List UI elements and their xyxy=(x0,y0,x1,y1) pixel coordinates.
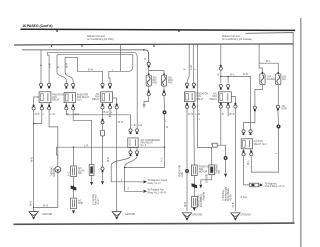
node junction xyxy=(73,147,74,148)
svg-text:FAN: FAN xyxy=(153,82,158,85)
wire xyxy=(20,29,295,30)
wire feeder B xyxy=(48,52,138,128)
svg-text:A–C: A–C xyxy=(68,171,71,176)
svg-text:FAN: FAN xyxy=(95,95,100,98)
svg-text:A–C: A–C xyxy=(161,157,164,162)
svg-text:L–W: L–W xyxy=(191,64,193,70)
svg-text:GAUGE: GAUGE xyxy=(267,78,276,81)
wire grommet to ground xyxy=(186,173,188,211)
svg-text:W–L: W–L xyxy=(230,75,235,77)
wire F2 to grommet xyxy=(163,96,166,111)
wire R1 pin to thermo switch xyxy=(49,110,58,167)
svg-text:FAN: FAN xyxy=(199,168,204,171)
svg-text:A/C: A/C xyxy=(78,200,82,203)
wire curve to arrow 2 xyxy=(125,156,143,191)
connector pins CR2 top xyxy=(242,130,245,135)
component inline resistor xyxy=(213,143,218,147)
wire CF1 tail xyxy=(255,85,263,106)
svg-text:A/C: A/C xyxy=(282,78,286,81)
svg-text:FAN: FAN xyxy=(52,96,57,99)
wire chain xyxy=(73,177,75,185)
node junction xyxy=(220,76,221,77)
wire chain xyxy=(193,189,195,197)
svg-text:RELAY: RELAY xyxy=(196,98,204,101)
wire CR1 pin2 chain xyxy=(193,108,196,165)
connector pins R3 top xyxy=(101,83,104,88)
svg-text:W–B: W–B xyxy=(185,202,187,207)
svg-text:L–W: L–W xyxy=(49,62,51,68)
fuse CF2 15A A/C xyxy=(276,72,281,85)
svg-text:W–L: W–L xyxy=(248,160,250,165)
svg-text:AMP: AMP xyxy=(78,202,83,205)
fuse CF1 7.5A GAUGE xyxy=(260,72,265,85)
relay R2 radiator fan relay No.2 xyxy=(64,92,75,102)
connector pins C-relay bottom xyxy=(129,151,132,156)
wire row horizontal xyxy=(57,147,165,160)
connector dark box xyxy=(89,165,94,176)
wire F1 tail xyxy=(144,96,149,108)
svg-text:<D–R>: <D–R> xyxy=(230,193,233,201)
connector pins R1 bottom xyxy=(32,105,35,110)
fuse F1 30A RDI FAN xyxy=(146,73,151,86)
relay CR2 magnetic clutch relay xyxy=(241,139,252,149)
svg-text:A/C: A/C xyxy=(143,104,147,107)
component fusible link xyxy=(250,183,259,187)
frame xyxy=(246,33,294,224)
svg-text:Radiator Fan and: Radiator Fan and xyxy=(87,35,105,38)
node junction xyxy=(33,207,34,208)
wire CR1 bottom stubs xyxy=(187,102,194,105)
connector bowtie xyxy=(192,183,198,189)
svg-text:FAN: FAN xyxy=(213,95,218,98)
svg-text:Clutch Relay <A–C>: Clutch Relay <A–C> xyxy=(265,185,286,188)
wire below F1 xyxy=(148,86,150,92)
wire CR1b bottom stubs xyxy=(221,102,228,104)
node tick xyxy=(178,30,180,33)
svg-text:To A/C: To A/C xyxy=(200,193,203,200)
svg-text:W–B: W–B xyxy=(188,114,193,116)
svg-text:RADIATOR: RADIATOR xyxy=(52,93,64,96)
svg-text:B–W: B–W xyxy=(243,74,249,76)
svg-text:B–W: B–W xyxy=(104,112,110,114)
wire below dark box xyxy=(91,175,93,181)
svg-text:W–B: W–B xyxy=(108,157,110,162)
svg-text:Amplifier: Amplifier xyxy=(202,191,205,200)
wire C-relay bottom stubs xyxy=(131,148,138,151)
wire R2 bottom pins xyxy=(66,103,73,107)
wire R2 pin2 to connector xyxy=(73,110,91,165)
wire bottom border xyxy=(14,223,295,224)
connector fuse feed xyxy=(147,62,150,65)
grommet xyxy=(277,125,281,129)
svg-text:L–W: L–W xyxy=(50,114,56,116)
node junction row xyxy=(164,147,165,148)
svg-text:DUAL: DUAL xyxy=(78,170,85,173)
wire pin stub xyxy=(227,108,229,116)
connector inline xyxy=(219,65,222,70)
arrow down xyxy=(102,173,104,181)
svg-text:B–W: B–W xyxy=(88,70,94,72)
arrow down xyxy=(72,210,75,213)
svg-text:W–L: W–L xyxy=(266,61,271,63)
wire bus drop pin2 xyxy=(227,76,229,83)
wire bus drop 2 xyxy=(192,45,195,83)
svg-text:L–R: L–R xyxy=(84,145,89,147)
fuse F2 30A CDS FAN xyxy=(161,73,166,86)
relay R3 cooling fan relay xyxy=(101,92,113,103)
node tick bus xyxy=(51,45,53,47)
svg-text:To Radiator Fan: To Radiator Fan xyxy=(148,189,165,192)
wire bus drop segB xyxy=(109,44,133,83)
svg-text:FAN: FAN xyxy=(181,172,184,177)
wire to grommet ground xyxy=(186,108,188,168)
noise filter xyxy=(100,130,104,136)
relay CR1b a/c fan relay xyxy=(218,92,231,103)
component engine coolant sensor xyxy=(209,165,215,175)
wire R1 bottom pins xyxy=(42,103,49,107)
connector pins CR1 bottom xyxy=(185,103,188,108)
svg-text:No. 2: No. 2 xyxy=(141,145,147,147)
wire to blob xyxy=(217,108,225,156)
svg-text:RELAY: RELAY xyxy=(210,98,218,101)
svg-text:W–B: W–B xyxy=(31,201,33,206)
wire to CR2 pin1 xyxy=(244,112,255,130)
connector CE1 xyxy=(191,165,197,176)
svg-text:A/C: A/C xyxy=(213,93,217,96)
connector E1 xyxy=(71,166,77,177)
wire branch to CR2 xyxy=(221,76,251,129)
svg-text:RELAY: RELAY xyxy=(52,99,60,102)
connector pins C-relay top xyxy=(129,129,132,134)
svg-text:A/C: A/C xyxy=(96,93,100,96)
wire CR2 pin1 to fuse link xyxy=(244,156,249,185)
svg-text:RADIATOR: RADIATOR xyxy=(77,93,89,96)
node junction xyxy=(33,123,34,124)
wire drop to R2 pin1 xyxy=(57,55,66,83)
relay CR1 radiator fan relay xyxy=(184,92,195,102)
arrow to magnetic clutch relay xyxy=(144,180,147,183)
ground CG1 xyxy=(182,213,191,221)
svg-text:L–R: L–R xyxy=(138,125,143,127)
svg-text:W–R: W–R xyxy=(229,114,234,116)
svg-text:RELAY No.2: RELAY No.2 xyxy=(254,143,268,146)
svg-text:A/C CONDENSER: A/C CONDENSER xyxy=(141,139,160,142)
svg-text:No.2: No.2 xyxy=(77,100,83,102)
wire chain drop xyxy=(73,147,75,166)
connector pins R1 top xyxy=(39,83,42,88)
arrow down xyxy=(90,182,93,185)
wire fuse split xyxy=(149,68,164,75)
wire curve to arrow 1 xyxy=(111,156,143,181)
svg-text:GROUND: GROUND xyxy=(240,214,251,216)
svg-text:Radiator Fan and: Radiator Fan and xyxy=(222,35,240,38)
svg-text:FAN RELAY: FAN RELAY xyxy=(141,142,154,145)
svg-text:of fuse: of fuse xyxy=(240,197,248,199)
svg-text:A/C: A/C xyxy=(282,105,286,108)
wire drop to R1 pin1 xyxy=(40,50,42,83)
svg-text:Air Conditioning (for USA): Air Conditioning (for USA) xyxy=(87,38,114,41)
wire R1 left pin xyxy=(34,97,40,106)
connector inline small xyxy=(102,119,104,121)
wire chain xyxy=(73,191,75,198)
wire CF2 tail xyxy=(277,85,279,105)
svg-text:W–B: W–B xyxy=(118,122,123,124)
ground G1 xyxy=(29,212,38,220)
svg-text:FAN RELAY: FAN RELAY xyxy=(77,96,90,99)
wire thermo to ground xyxy=(35,173,58,208)
connector below F1 xyxy=(147,91,150,96)
connector below F2 xyxy=(162,91,165,96)
arrow down xyxy=(193,208,196,211)
wire R3 pin3 to ground xyxy=(116,109,118,211)
svg-text:RADIATOR: RADIATOR xyxy=(179,165,182,177)
wire feeder C xyxy=(57,54,133,56)
svg-text:FAN: FAN xyxy=(196,95,201,98)
svg-text:15A: 15A xyxy=(282,76,287,79)
connector pins CR1 top xyxy=(185,83,188,88)
wire R2 pin1 to C-relay xyxy=(66,110,130,128)
wire R1 mid pin join xyxy=(34,110,42,124)
svg-text:Relay No.2 <R–F>: Relay No.2 <R–F> xyxy=(148,191,168,194)
connector inline xyxy=(101,167,104,172)
svg-text:To Daytime: To Daytime xyxy=(222,189,225,201)
svg-text:W–B: W–B xyxy=(32,157,34,162)
wire R3 pin2 stub xyxy=(109,109,111,117)
wire drop to R2 pin2 xyxy=(65,57,73,83)
svg-text:W–B: W–B xyxy=(43,205,48,207)
thermo switch xyxy=(55,167,61,173)
wire bus drop connector xyxy=(220,45,222,66)
svg-text:MTR: MTR xyxy=(282,108,287,110)
svg-text:GROUND: GROUND xyxy=(42,214,53,216)
connector inline xyxy=(253,106,256,111)
svg-text:To Magnetic: To Magnetic xyxy=(265,182,278,185)
svg-text:W–R: W–R xyxy=(67,63,69,68)
grommet xyxy=(185,169,189,173)
frame scan edge xyxy=(300,18,302,247)
svg-text:L–B: L–B xyxy=(132,125,137,127)
svg-text:A/C FAN: A/C FAN xyxy=(254,140,263,143)
connector pins R2 bottom xyxy=(65,105,68,110)
wire R3 pin1 chain xyxy=(102,109,104,167)
svg-text:Relay <A–C>: Relay <A–C> xyxy=(148,182,162,185)
svg-text:Running Light: Running Light xyxy=(224,186,227,201)
relay C a/c condenser fan relay No.2 xyxy=(128,138,138,148)
wire CR2 pin2 loop xyxy=(251,129,278,173)
wire down junction xyxy=(220,70,222,83)
arrow to radiator fan relay xyxy=(144,190,147,193)
svg-text:<C–F>: <C–F> xyxy=(97,197,100,205)
wire R3 bottom pins xyxy=(103,98,117,105)
connector E2 xyxy=(71,198,77,209)
wire bus drop fuses xyxy=(259,45,278,74)
svg-text:30A: 30A xyxy=(168,76,173,79)
svg-text:ENGINE: ENGINE xyxy=(207,174,209,183)
svg-text:THERMO: THERMO xyxy=(52,166,54,176)
connector bowtie xyxy=(71,185,77,191)
relay R1 radiator fan relay xyxy=(39,92,51,103)
wire to ground xyxy=(234,108,236,211)
wire CR1b pin3 xyxy=(231,97,235,105)
connector pins CR1b bottom xyxy=(219,103,222,108)
svg-text:W–R: W–R xyxy=(74,114,79,116)
node B+ bus xyxy=(14,44,293,45)
arrow down xyxy=(199,185,202,188)
svg-text:To Magnetic Clutch: To Magnetic Clutch xyxy=(148,179,168,182)
svg-text:GROUND: GROUND xyxy=(125,214,136,216)
svg-text:RADIATOR: RADIATOR xyxy=(196,93,208,96)
wire CR2 bottom stubs xyxy=(244,149,251,152)
svg-text:30A: 30A xyxy=(153,76,158,79)
wire to ground 1 xyxy=(33,110,35,211)
svg-text:16 PASEO (Cont’d): 16 PASEO (Cont’d) xyxy=(22,24,52,28)
connector pins R3 bottom xyxy=(101,104,104,109)
wire feeder D xyxy=(65,56,77,58)
node tick xyxy=(56,30,58,33)
wire bus drop 3 xyxy=(198,45,212,165)
node tick bus xyxy=(81,45,83,47)
connector pins CR2 bottom xyxy=(242,151,245,156)
svg-text:W–B: W–B xyxy=(233,202,235,207)
wire feeder A xyxy=(22,50,149,62)
wire sensor tail xyxy=(201,175,212,185)
grommet xyxy=(224,156,228,160)
svg-text:MOTOR: MOTOR xyxy=(199,172,208,174)
svg-text:7.5A: 7.5A xyxy=(267,76,272,79)
wire grommet down xyxy=(125,115,165,168)
wire bus drop 1 xyxy=(187,45,189,83)
svg-text:Air Conditioning (for Canada): Air Conditioning (for Canada) xyxy=(222,38,252,41)
node tick bus xyxy=(153,45,155,47)
svg-text:GROUND: GROUND xyxy=(192,214,203,216)
wire grommet to arrow xyxy=(225,160,227,173)
svg-text:A/C: A/C xyxy=(78,167,82,170)
connector CE2 xyxy=(191,197,197,208)
svg-text:L–W: L–W xyxy=(195,114,201,116)
wire feeder C to segA xyxy=(78,57,103,83)
connector inline xyxy=(276,105,279,110)
svg-text:W–B: W–B xyxy=(35,114,40,116)
ground CG2 xyxy=(231,213,240,221)
connector pins R2 top xyxy=(65,83,68,88)
arrow right xyxy=(260,183,263,186)
wire chain xyxy=(193,176,195,183)
ground G2 xyxy=(112,212,121,220)
svg-text:RELAY: RELAY xyxy=(92,98,100,101)
svg-text:FAN: FAN xyxy=(168,82,173,85)
svg-text:ENGINE: ENGINE xyxy=(54,167,56,176)
arrow down xyxy=(224,174,227,177)
wire to grommet xyxy=(277,111,280,125)
wire drop to R1 pin2 xyxy=(48,52,50,83)
wire below F2 xyxy=(163,86,165,92)
connector pins CR1b top xyxy=(219,84,222,89)
grommet xyxy=(163,110,167,114)
